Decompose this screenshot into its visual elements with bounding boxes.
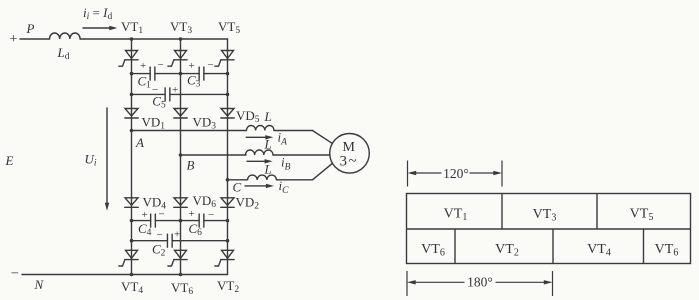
- svg-text:C1: C1: [138, 74, 152, 91]
- svg-text:VT6: VT6: [655, 242, 679, 259]
- svg-text:−: −: [157, 229, 163, 241]
- svg-text:+: +: [142, 209, 148, 221]
- svg-text:iA: iA: [278, 130, 288, 148]
- svg-text:180°: 180°: [467, 274, 493, 289]
- svg-text:VT2: VT2: [217, 278, 239, 295]
- svg-text:L: L: [264, 109, 272, 124]
- svg-text:P: P: [26, 21, 35, 36]
- svg-text:−: −: [11, 266, 19, 281]
- svg-text:VT3: VT3: [170, 19, 192, 36]
- svg-text:ii = Id: ii = Id: [83, 5, 112, 22]
- svg-text:+: +: [174, 229, 180, 241]
- svg-text:−: −: [158, 59, 164, 71]
- svg-text:−: −: [152, 84, 158, 96]
- svg-text:−: −: [159, 209, 165, 221]
- svg-text:VT5: VT5: [218, 19, 240, 36]
- svg-text:L: L: [264, 162, 272, 177]
- svg-text:VT4: VT4: [121, 279, 143, 296]
- svg-text:VD5: VD5: [236, 108, 260, 125]
- svg-text:N: N: [34, 277, 45, 292]
- svg-text:B: B: [187, 158, 195, 173]
- svg-text:VD2: VD2: [236, 195, 260, 212]
- svg-text:VT2: VT2: [495, 242, 519, 259]
- svg-text:VT3: VT3: [533, 207, 557, 224]
- svg-text:C: C: [233, 180, 242, 195]
- svg-text:C4: C4: [138, 221, 152, 238]
- svg-text:120°: 120°: [443, 166, 469, 181]
- svg-text:−: −: [208, 59, 214, 71]
- svg-text:Ui: Ui: [85, 152, 97, 169]
- svg-text:VD3: VD3: [193, 115, 217, 132]
- svg-text:VT6: VT6: [421, 242, 445, 259]
- svg-text:iB: iB: [281, 155, 291, 173]
- svg-text:+: +: [189, 208, 195, 220]
- svg-text:+: +: [172, 84, 178, 96]
- svg-text:VT5: VT5: [630, 207, 654, 224]
- svg-text:E: E: [5, 153, 14, 168]
- svg-text:A: A: [135, 135, 144, 150]
- svg-text:L: L: [264, 137, 272, 152]
- svg-text:+: +: [140, 60, 146, 72]
- svg-text:+: +: [189, 60, 195, 72]
- svg-text:VD1: VD1: [142, 115, 166, 132]
- svg-text:VT4: VT4: [587, 242, 611, 259]
- svg-text:iC: iC: [279, 178, 290, 196]
- svg-text:VT6: VT6: [171, 280, 193, 297]
- svg-text:+: +: [10, 32, 18, 47]
- svg-text:Ld: Ld: [57, 45, 70, 62]
- svg-text:VT1: VT1: [121, 19, 143, 36]
- svg-text:C5: C5: [152, 94, 166, 111]
- svg-text:3~: 3~: [340, 154, 357, 170]
- svg-text:VD6: VD6: [193, 193, 217, 210]
- svg-text:−: −: [208, 209, 214, 221]
- svg-text:VT1: VT1: [444, 207, 468, 224]
- svg-text:C6: C6: [189, 221, 203, 238]
- svg-text:C2: C2: [152, 242, 166, 259]
